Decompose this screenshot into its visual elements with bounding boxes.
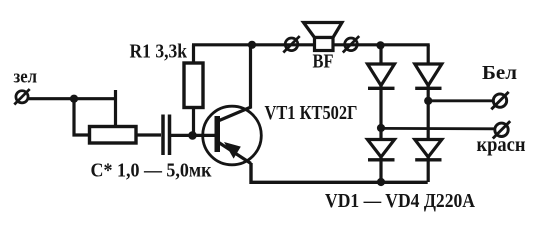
speaker BF horn <box>304 23 343 38</box>
wire left bridge column <box>379 45 382 182</box>
wire to terminal Бел <box>428 99 493 102</box>
svg-text:зел: зел <box>14 66 38 87</box>
node left column mid junction dot <box>377 124 385 132</box>
transistor VT1 emitter stroke with PNP arrow <box>218 142 251 164</box>
svg-text:красн: красн <box>477 135 526 156</box>
resistor R1 lead top <box>192 45 195 63</box>
wire box right lead to capacitor <box>137 133 162 136</box>
terminal screw on rail left of BF <box>283 36 299 52</box>
wire terminal to node A <box>28 97 117 100</box>
resistor R1 lead bottom <box>192 107 195 135</box>
wire right bridge column <box>427 45 430 182</box>
svg-text:BF: BF <box>313 52 334 73</box>
svg-text:Бел: Бел <box>482 63 517 84</box>
diode VD1 top-left <box>368 64 395 88</box>
terminal Бел (screw clamp) <box>491 92 508 109</box>
svg-text:VD1 — VD4 Д220А: VD1 — VD4 Д220А <box>325 190 475 212</box>
diode VD4 bottom-right <box>415 140 442 160</box>
wire collector vertical <box>249 45 252 109</box>
component box body <box>90 127 137 144</box>
wire stub into box top <box>114 90 117 127</box>
terminal красн (screw clamp) <box>493 121 510 138</box>
node base junction dot <box>188 131 197 140</box>
resistor R1 body <box>184 63 203 108</box>
wire capacitor to base node <box>171 134 217 137</box>
wire top rail <box>192 43 430 46</box>
transistor VT1 circle <box>203 106 262 165</box>
svg-text:С* 1,0 — 5,0мк: С* 1,0 — 5,0мк <box>91 160 212 182</box>
node bottom rail junction dot <box>377 178 385 186</box>
transistor VT1 collector stroke <box>218 107 251 121</box>
terminal зел (screw clamp) <box>14 89 29 104</box>
node collector-rail junction dot <box>248 41 256 49</box>
diode VD3 bottom-left <box>368 140 395 160</box>
speaker BF body <box>315 38 334 51</box>
wire emitter down to bottom rail <box>251 163 428 182</box>
diode VD2 top-right <box>415 64 442 88</box>
terminal screw on rail right of BF <box>343 36 359 52</box>
wire node A down to box left lead <box>74 99 89 135</box>
node rail-left column junction dot <box>376 41 384 49</box>
svg-text:R1 3,3k: R1 3,3k <box>130 40 188 62</box>
capacitor C* plates <box>163 115 170 156</box>
transistor VT1 base bar <box>215 116 221 152</box>
wire to terminal красн <box>381 127 495 130</box>
node A junction dot <box>70 95 78 103</box>
svg-text:VT1 КТ502Г: VT1 КТ502Г <box>265 103 358 124</box>
node right column mid junction dot <box>424 97 432 105</box>
